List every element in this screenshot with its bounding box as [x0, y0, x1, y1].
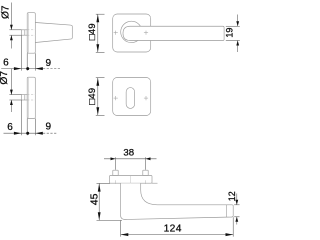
escutcheon slab side view [21, 77, 35, 118]
dim 19 (lever bar) [226, 15, 240, 53]
screw cross left (rose) [114, 31, 118, 35]
dim 38 [104, 157, 157, 170]
spindle stub [21, 30, 27, 35]
svg-text:12: 12 [227, 191, 237, 201]
hidden screw-hole ticks in slab [116, 180, 146, 184]
svg-text:124: 124 [164, 223, 182, 234]
svg-text:45: 45 [89, 193, 101, 205]
svg-text:Ø7: Ø7 [0, 71, 10, 85]
screw boss left [113, 170, 118, 175]
spindle hidden dashes [27, 30, 35, 35]
svg-text:6: 6 [3, 58, 9, 69]
dim 6 / 9 (view B) [4, 100, 58, 135]
grip end face line [226, 205, 228, 217]
svg-text:38: 38 [123, 148, 134, 159]
dim square-49 (escutcheon) [96, 78, 105, 116]
dim Ø7 (view A) [9, 3, 21, 49]
lever bar front view [123, 26, 224, 40]
rose slab side view [27, 13, 35, 54]
keyhole [126, 88, 134, 109]
screw cross left (escutcheon) [114, 96, 118, 100]
svg-text:□49: □49 [87, 88, 98, 105]
dim 12 [234, 194, 239, 225]
dim Ø7 (view B) [9, 69, 21, 113]
svg-text:□49: □49 [87, 23, 98, 40]
svg-text:6: 6 [7, 122, 13, 133]
svg-text:19: 19 [224, 28, 234, 38]
handle top view outline [121, 183, 234, 219]
handle neck side view [35, 23, 72, 43]
svg-text:Ø7: Ø7 [0, 5, 11, 19]
square rose [113, 14, 151, 52]
dim square-49 (rose) [96, 14, 105, 52]
svg-text:9: 9 [46, 121, 52, 132]
rose slab top view [110, 176, 153, 184]
dim 6 / 9 (view A) [1, 35, 60, 70]
door face stub right [152, 182, 158, 184]
neck center line [129, 176, 131, 196]
dim 45 [97, 183, 123, 220]
boss outer circle [121, 21, 142, 42]
screw cross right (rose) [144, 31, 148, 35]
screw cross right (escutcheon) [144, 96, 148, 100]
dim 124 [121, 217, 234, 236]
screw boss right [143, 170, 148, 175]
hidden dashes (view B) [27, 95, 35, 100]
square escutcheon [113, 78, 151, 116]
svg-text:9: 9 [46, 58, 52, 69]
